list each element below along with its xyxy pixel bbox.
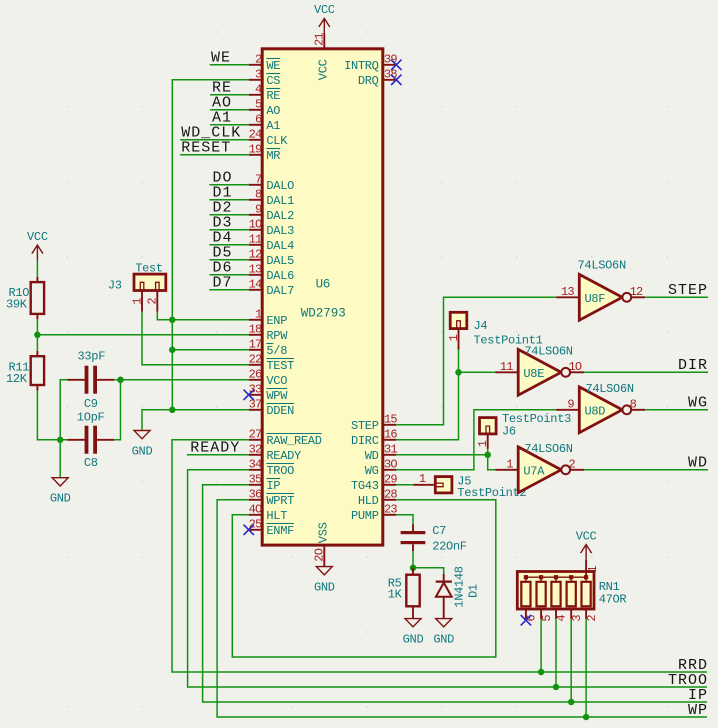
wire RAW_READ to RRD bus xyxy=(172,440,707,672)
testpoint J4 TestPoint1 xyxy=(447,312,543,349)
inverter U8D 74LS06N xyxy=(556,382,645,433)
svg-text:WE: WE xyxy=(266,59,280,73)
wire HLT to HLD loop xyxy=(232,500,496,657)
U6 pin 10 DAL3 (left) xyxy=(249,218,295,239)
svg-text:8: 8 xyxy=(630,397,637,411)
junction R10/R11/RPW xyxy=(34,332,41,339)
svg-text:1: 1 xyxy=(506,457,513,471)
no-connect DRQ xyxy=(391,75,401,85)
resistor R11 12K xyxy=(6,351,44,391)
wire WD junction to U7A xyxy=(488,455,495,470)
inverter U8F 74LS06N xyxy=(556,258,645,320)
U6 pin 3 CS (left) xyxy=(249,68,281,89)
wire IP to IP bus xyxy=(203,485,707,702)
U6 pin 38 DRQ (right) xyxy=(358,68,398,89)
U6 pin 23 PUMP (right) xyxy=(351,503,397,524)
wire RN1 pin 3 to IP bus xyxy=(570,619,572,702)
junction IP/RN1.3 xyxy=(568,699,575,706)
U6 pin 36 WPRT (left) xyxy=(249,488,295,509)
wire STEP pin to U8F xyxy=(396,297,556,425)
no-connect WPW xyxy=(244,390,254,400)
svg-text:WG: WG xyxy=(688,395,708,412)
junction ENP/GND rail xyxy=(169,317,176,324)
svg-text:3: 3 xyxy=(570,615,584,622)
svg-text:13: 13 xyxy=(561,285,574,299)
svg-text:1: 1 xyxy=(130,298,144,305)
inverter U7A 74LS06N xyxy=(495,442,584,493)
svg-text:12K: 12K xyxy=(6,372,28,386)
U6 pin 9 DAL2 (left) xyxy=(249,203,294,224)
wire VCO xyxy=(121,379,249,381)
testpoint J6 TestPoint3 xyxy=(476,412,571,449)
svg-text:1OpF: 1OpF xyxy=(77,411,105,425)
svg-text:DAL6: DAL6 xyxy=(266,269,294,283)
svg-text:STEP: STEP xyxy=(351,419,379,433)
svg-text:19: 19 xyxy=(249,143,262,157)
U6 pin 2 WE (left) xyxy=(249,53,281,74)
wire WG pin to U8D xyxy=(396,410,556,470)
wire RESET xyxy=(180,154,249,156)
U6 pin 34 TR00 (left) xyxy=(249,458,295,479)
wire R11 to C8 rail xyxy=(37,390,67,439)
wire WD_CLK xyxy=(180,139,249,141)
svg-text:22OnF: 22OnF xyxy=(432,540,467,554)
U6 pin 5 A0 (left) xyxy=(249,98,281,119)
svg-text:74LSO6N: 74LSO6N xyxy=(524,442,572,456)
svg-text:DIRC: DIRC xyxy=(351,434,379,448)
testpoint J5 TestPoint2 xyxy=(413,472,526,500)
power GND (D1) xyxy=(436,619,452,627)
U6 pin 7 DAL0 (left) xyxy=(249,173,294,194)
svg-text:CS: CS xyxy=(266,74,280,88)
power GND (DDEN rail) xyxy=(134,431,150,439)
wire J4 to DIR junction xyxy=(458,350,460,373)
connector J3 Test xyxy=(108,261,166,311)
U6 pin 22 TEST (left) xyxy=(249,353,295,374)
wire A0 xyxy=(210,109,249,111)
svg-text:74LSO6N: 74LSO6N xyxy=(524,345,572,359)
svg-text:36: 36 xyxy=(249,488,262,502)
wire J6 to WD junction xyxy=(487,449,489,455)
junction VCO/C9 xyxy=(117,377,124,384)
svg-text:Test: Test xyxy=(135,261,163,275)
svg-text:WPRT: WPRT xyxy=(266,494,294,508)
svg-text:33: 33 xyxy=(249,383,262,397)
U6 pin 21 VCC (top) xyxy=(313,33,331,81)
wire C9 right to VCO junction xyxy=(114,379,120,381)
U6 pin 13 DAL6 (left) xyxy=(249,263,295,284)
wire WE xyxy=(210,64,249,66)
svg-text:21: 21 xyxy=(313,33,327,46)
svg-text:J6: J6 xyxy=(502,425,516,439)
svg-text:12: 12 xyxy=(249,248,262,262)
U6 pin 18 RPW (left) xyxy=(249,323,289,344)
wire junction to GND xyxy=(59,440,61,478)
svg-text:U7A: U7A xyxy=(523,464,545,478)
svg-text:INTRQ: INTRQ xyxy=(344,59,379,73)
power VCC (left, above R10) xyxy=(32,245,43,261)
svg-text:34: 34 xyxy=(249,458,262,472)
wire TEST to J3 pin 1 xyxy=(142,312,249,365)
capacitor C9 33pF xyxy=(67,350,114,412)
svg-text:READY: READY xyxy=(266,449,301,463)
svg-text:TG43: TG43 xyxy=(351,479,379,493)
svg-text:D1: D1 xyxy=(466,584,480,598)
svg-text:VCO: VCO xyxy=(266,374,287,388)
junction WP/RN1.2 xyxy=(583,714,590,721)
svg-text:8: 8 xyxy=(255,188,262,202)
resistor R5 1K xyxy=(388,568,420,619)
svg-text:23: 23 xyxy=(384,503,397,517)
svg-text:VCC: VCC xyxy=(576,529,597,543)
svg-text:1: 1 xyxy=(586,566,600,573)
svg-text:29: 29 xyxy=(384,473,397,487)
U6 pin 8 DAL1 (left) xyxy=(249,188,294,209)
wire RPW to R10/R11 divider xyxy=(37,334,248,336)
junction TR00/RN1.4 xyxy=(553,684,560,691)
svg-text:7: 7 xyxy=(255,173,262,187)
svg-text:11: 11 xyxy=(500,360,513,374)
svg-text:17: 17 xyxy=(249,338,262,352)
svg-text:U8D: U8D xyxy=(585,404,606,418)
wire DDEN to GND xyxy=(142,410,249,431)
power GND (below C8) xyxy=(52,478,68,486)
U6 pin 32 READY (left) xyxy=(249,443,301,464)
svg-text:2: 2 xyxy=(255,53,262,67)
U6 pin 39 INTRQ (right) xyxy=(344,53,397,74)
junction WD/J6 xyxy=(484,452,491,459)
wire VCC to R10 xyxy=(36,261,38,277)
U6 pin 19 MR (left) xyxy=(249,143,281,164)
svg-text:4: 4 xyxy=(255,83,262,97)
wire RN1 pin 2 to WP bus xyxy=(585,619,587,717)
svg-text:A1: A1 xyxy=(266,119,280,133)
wire D6 xyxy=(209,274,248,276)
U6 pin 6 A1 (left) xyxy=(249,113,281,134)
svg-text:WD: WD xyxy=(365,449,379,463)
wire RN1 pin 5 to RRD bus xyxy=(540,619,542,672)
svg-text:DRQ: DRQ xyxy=(358,74,379,88)
svg-text:HLD: HLD xyxy=(358,494,379,508)
U6 pin 14 DAL7 (left) xyxy=(249,278,295,299)
wire WD output xyxy=(584,469,708,471)
svg-text:18: 18 xyxy=(249,323,262,337)
svg-text:WD2793: WD2793 xyxy=(301,307,346,321)
svg-text:2: 2 xyxy=(146,298,160,305)
junction DIR/J4 xyxy=(455,369,462,376)
svg-text:DAL7: DAL7 xyxy=(266,284,294,298)
svg-text:24: 24 xyxy=(249,128,262,142)
wire DIR output xyxy=(584,371,708,373)
no-connect RN1 pin 6 xyxy=(521,615,531,625)
svg-text:VSS: VSS xyxy=(316,522,330,543)
U6 pin 4 RE (left) xyxy=(249,83,281,104)
wire C9 junction down to C8 right xyxy=(114,380,120,440)
svg-text:ENP: ENP xyxy=(266,314,287,328)
U6 pin 11 DAL4 (left) xyxy=(249,233,295,254)
svg-text:5: 5 xyxy=(540,615,554,622)
wire TR00 to TR00 bus xyxy=(188,470,707,687)
svg-text:1: 1 xyxy=(255,308,262,322)
svg-text:WE: WE xyxy=(211,50,231,67)
svg-text:1N4148: 1N4148 xyxy=(453,566,467,608)
svg-text:37: 37 xyxy=(249,398,262,412)
svg-text:J4: J4 xyxy=(474,319,488,333)
svg-text:5: 5 xyxy=(255,98,262,112)
junction DDEN/GND rail xyxy=(169,407,176,414)
U6 pin 15 STEP (right) xyxy=(351,413,397,434)
svg-text:DAL1: DAL1 xyxy=(266,194,294,208)
svg-text:27: 27 xyxy=(249,428,262,442)
wire D3 xyxy=(209,229,248,231)
svg-text:3O: 3O xyxy=(384,458,397,472)
svg-text:C8: C8 xyxy=(84,456,98,470)
svg-text:1K: 1K xyxy=(388,587,403,601)
U6 pin 1 ENP (left) xyxy=(249,308,288,329)
svg-text:4: 4 xyxy=(555,615,569,622)
svg-text:25: 25 xyxy=(249,518,262,532)
power GND (VSS) xyxy=(316,567,332,575)
svg-text:1: 1 xyxy=(419,472,426,486)
svg-text:TEST: TEST xyxy=(266,359,294,373)
svg-text:RPW: RPW xyxy=(266,329,288,343)
U6 pin 17 5/8 (left) xyxy=(249,338,288,359)
svg-text:ENMF: ENMF xyxy=(266,524,294,538)
resistor network RN1 470R xyxy=(517,560,626,622)
svg-text:26: 26 xyxy=(249,368,262,382)
U6 pin 26 VCO (left) xyxy=(249,368,288,389)
svg-text:STEP: STEP xyxy=(668,282,708,299)
svg-text:DALO: DALO xyxy=(266,179,294,193)
U6 pin 25 ENMF (left) xyxy=(249,518,295,539)
U6 pin 29 TG43 (right) xyxy=(351,473,397,494)
svg-text:RE: RE xyxy=(266,89,280,103)
svg-text:MR: MR xyxy=(266,149,280,163)
svg-text:DIR: DIR xyxy=(678,357,708,374)
svg-text:74LSO6N: 74LSO6N xyxy=(578,258,626,272)
svg-text:J3: J3 xyxy=(108,278,122,292)
U6 pin 20 VSS (bottom) xyxy=(313,522,331,566)
svg-text:PUMP: PUMP xyxy=(351,509,379,523)
svg-text:33pF: 33pF xyxy=(78,350,106,364)
wire RE xyxy=(210,94,249,96)
svg-text:1O: 1O xyxy=(569,360,582,374)
svg-text:1O: 1O xyxy=(249,218,262,232)
wire D2 xyxy=(209,214,248,216)
svg-text:VCC: VCC xyxy=(316,59,330,80)
capacitor C8 10pF xyxy=(67,411,114,471)
U6 pin 33 WPW (left) xyxy=(249,383,289,404)
svg-text:3: 3 xyxy=(255,68,262,82)
wire junction to D1 xyxy=(413,568,444,574)
U6 pin 40 HLT (left) xyxy=(249,503,288,524)
wire junction to R11 xyxy=(36,335,38,351)
svg-text:DAL5: DAL5 xyxy=(266,254,294,268)
svg-text:VCC: VCC xyxy=(314,3,335,17)
diode D1 1N4148 xyxy=(436,566,481,618)
U6 pin 37 DDEN (left) xyxy=(249,398,295,419)
svg-text:9: 9 xyxy=(255,203,262,217)
svg-text:U8E: U8E xyxy=(523,367,544,381)
wire ENP to J3 pin 2 xyxy=(157,312,248,320)
svg-text:1: 1 xyxy=(447,334,461,341)
svg-text:6: 6 xyxy=(255,113,262,127)
no-connect INTRQ xyxy=(391,60,401,70)
U6 pin 24 CLK (left) xyxy=(249,128,289,149)
svg-text:U8F: U8F xyxy=(585,292,606,306)
svg-text:39K: 39K xyxy=(6,297,28,311)
svg-text:DAL3: DAL3 xyxy=(266,224,294,238)
svg-text:15: 15 xyxy=(384,413,397,427)
U6 pin 12 DAL5 (left) xyxy=(249,248,295,269)
junction 5-8/GND rail xyxy=(169,347,176,354)
U6 pin 16 DIRC (right) xyxy=(351,428,397,449)
svg-text:35: 35 xyxy=(249,473,262,487)
wire C7 to R5/D1 junction xyxy=(412,551,414,568)
wire D0 xyxy=(209,184,248,186)
wire R10 to junction xyxy=(36,319,38,335)
wire CS net (to GND rail) xyxy=(172,80,248,410)
svg-text:1: 1 xyxy=(476,440,490,447)
svg-text:GND: GND xyxy=(132,444,153,458)
svg-text:AO: AO xyxy=(266,104,280,118)
svg-text:DAL2: DAL2 xyxy=(266,209,294,223)
svg-text:WPW: WPW xyxy=(266,389,288,403)
wire DIRC pin to U8E xyxy=(396,372,495,440)
wire D1 xyxy=(209,199,248,201)
svg-text:2: 2 xyxy=(569,457,576,471)
svg-text:74LSO6N: 74LSO6N xyxy=(585,382,633,396)
IC U6 WD2793 body xyxy=(262,49,383,545)
U6 pin 31 WD (right) xyxy=(365,443,398,464)
svg-text:14: 14 xyxy=(249,278,262,292)
svg-text:RAW_READ: RAW_READ xyxy=(266,434,321,448)
svg-text:13: 13 xyxy=(249,263,262,277)
svg-text:DAL4: DAL4 xyxy=(266,239,294,253)
wire D5 xyxy=(209,259,248,261)
svg-text:16: 16 xyxy=(384,428,397,442)
wire READY xyxy=(187,454,249,456)
svg-text:DDEN: DDEN xyxy=(266,404,294,418)
svg-text:22: 22 xyxy=(249,353,262,367)
svg-text:GND: GND xyxy=(50,492,71,506)
svg-text:GND: GND xyxy=(403,632,424,646)
svg-text:CLK: CLK xyxy=(266,134,288,148)
junction RRD/RN1.5 xyxy=(538,669,545,676)
svg-text:WD: WD xyxy=(688,455,708,472)
wire D7 xyxy=(209,289,248,291)
svg-text:5/8: 5/8 xyxy=(266,344,287,358)
junction C7/R5/D1 xyxy=(410,565,417,572)
svg-text:WP: WP xyxy=(688,702,708,719)
svg-text:32: 32 xyxy=(249,443,262,457)
svg-text:GND: GND xyxy=(314,580,335,594)
svg-text:2: 2 xyxy=(585,615,599,622)
svg-text:VCC: VCC xyxy=(27,230,48,244)
svg-text:WG: WG xyxy=(365,464,379,478)
wire C9 left to C8 left xyxy=(60,380,67,440)
svg-text:11: 11 xyxy=(249,233,262,247)
U6 pin 28 HLD (right) xyxy=(358,488,398,509)
U6 pin 35 IP (left) xyxy=(249,473,281,494)
svg-text:12: 12 xyxy=(630,285,643,299)
svg-text:47OR: 47OR xyxy=(599,592,627,606)
wire WPRT to WP bus xyxy=(217,500,707,717)
wire WG output xyxy=(645,409,708,411)
svg-text:TROO: TROO xyxy=(266,464,294,478)
svg-text:28: 28 xyxy=(384,488,397,502)
inverter U8E 74LS06N xyxy=(495,345,584,396)
svg-text:2O: 2O xyxy=(313,548,327,561)
U6 pin 27 RAW_READ (left) xyxy=(249,428,322,449)
wire 5/8 to GND rail xyxy=(172,349,248,351)
power VCC (top, pin 21) xyxy=(319,18,330,34)
wire STEP output xyxy=(645,296,708,298)
svg-text:IP: IP xyxy=(266,479,280,493)
svg-text:31: 31 xyxy=(384,443,397,457)
svg-text:GND: GND xyxy=(433,632,454,646)
junction C8/R11/GND xyxy=(57,437,64,444)
svg-text:HLT: HLT xyxy=(266,509,287,523)
svg-text:4O: 4O xyxy=(249,503,262,517)
svg-text:TestPoint2: TestPoint2 xyxy=(457,486,526,500)
resistor R10 39K xyxy=(6,277,44,319)
svg-text:C7: C7 xyxy=(432,524,446,538)
svg-text:9: 9 xyxy=(567,397,574,411)
svg-text:C9: C9 xyxy=(84,397,98,411)
wire TG43 to J5 xyxy=(396,484,413,486)
capacitor C7 220nF xyxy=(401,524,467,554)
wire WD pin to junction xyxy=(396,454,487,456)
wire PUMP to C7 xyxy=(396,515,413,524)
svg-text:U6: U6 xyxy=(316,278,330,292)
no-connect ENMF xyxy=(244,525,254,535)
U6 pin 30 WG (right) xyxy=(365,458,398,479)
power GND (R5) xyxy=(405,619,421,627)
wire D4 xyxy=(209,244,248,246)
wire RN1 pin 4 to TR00 bus xyxy=(555,619,557,687)
wire A1 xyxy=(210,124,249,126)
power VCC (right, RN1 pin 1) xyxy=(581,545,592,561)
